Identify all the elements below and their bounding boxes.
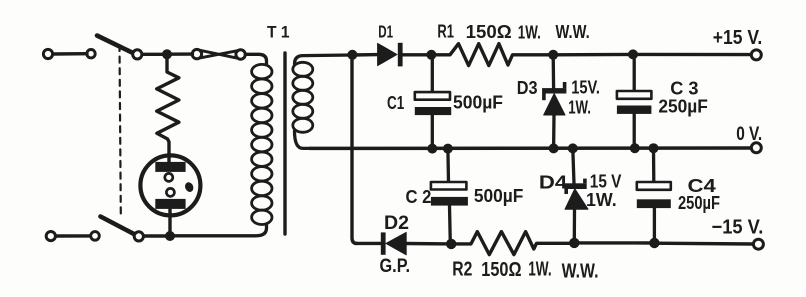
svg-text:500µF: 500µF: [474, 186, 524, 206]
wire: C4 branch lower: [653, 208, 656, 243]
wire: secondary bottom to 0V rail: [295, 131, 311, 148]
wire: top rail to +15V terminal: [633, 53, 751, 57]
fuse F1 bowtie: [201, 50, 237, 58]
wire: D4 branch lower: [573, 209, 577, 243]
svg-text:250µF: 250µF: [678, 193, 720, 213]
svg-text:R1: R1: [437, 22, 454, 42]
node: D4 on 0V rail: [568, 143, 578, 153]
svg-text:1W.: 1W.: [528, 259, 551, 281]
wire: C1 branch lower: [431, 115, 434, 149]
neon lamp upper small circle: [165, 173, 173, 181]
svg-text:W.W.: W.W.: [556, 22, 590, 42]
neon lamp bottom electrode: [155, 199, 185, 209]
capacitor C3 top plate: [617, 91, 652, 99]
fuse F1 left circle: [192, 49, 201, 58]
svg-text:G.P.: G.P.: [380, 256, 411, 277]
terminal 0V: [751, 143, 761, 153]
node: C4 on -15 rail: [649, 238, 659, 248]
zener D3 triangle: [544, 94, 565, 115]
zener D3 cathode bar: [542, 82, 566, 100]
capacitor C4 top plate: [637, 182, 671, 190]
resistor R2 zigzag: [451, 232, 574, 255]
node: C3 on 0V rail: [630, 143, 640, 153]
wire: fuse to transformer primary: [245, 54, 266, 64]
0V rail: [310, 146, 751, 150]
wire: C2 branch upper: [446, 149, 450, 182]
terminal: switch S1b left contact: [91, 232, 100, 241]
node A (junction switch/resistor/fuse): [162, 49, 172, 59]
wire: secondary top to +rail: [295, 55, 353, 64]
terminal: mains pin bottom-left: [46, 232, 55, 241]
switch S1b arm: [101, 217, 136, 235]
svg-text:−15 V.: −15 V.: [712, 216, 764, 238]
node: D1 / R1 / C1 junction: [426, 50, 436, 60]
neon lamp top electrode: [155, 162, 185, 172]
switch S1b right contact: [134, 232, 143, 241]
svg-text:D4: D4: [539, 172, 568, 192]
node: R1 / D3 junction: [548, 50, 558, 60]
node: C1 on 0V rail: [427, 144, 437, 154]
transformer T1 secondary winding: [293, 62, 313, 132]
wire: lamp bottom to bottom node: [168, 209, 171, 236]
node: D2 / C2 / R2 junction: [446, 239, 456, 249]
node: D3 on 0V rail: [549, 143, 559, 153]
wire: node B to primary bottom: [170, 224, 267, 236]
svg-text:1W.: 1W.: [568, 98, 591, 118]
capacitor C1 bottom plate: [415, 107, 451, 115]
svg-text:C1: C1: [387, 93, 404, 113]
diode D1 triangle: [378, 43, 397, 65]
node: D4 on -15 rail: [569, 238, 579, 248]
svg-text:1W.: 1W.: [518, 22, 541, 42]
svg-text:+15 V.: +15 V.: [713, 26, 763, 49]
wire: top rail node A2 to D1: [352, 53, 378, 57]
wire: bottom-left terminal pair link: [56, 234, 90, 238]
wire: C1 branch upper: [431, 55, 434, 92]
svg-text:250µF: 250µF: [658, 97, 708, 117]
wire: S1a to node A: [143, 53, 168, 56]
fuse F1 right circle: [236, 50, 245, 59]
wire: D2 to R2 node: [406, 242, 451, 246]
diode D2 cathode bar: [381, 232, 386, 254]
wire: C3 branch upper: [633, 54, 636, 91]
svg-text:W.W.: W.W.: [562, 261, 599, 283]
svg-text:15 V: 15 V: [590, 172, 622, 192]
resistor R1 zigzag: [431, 44, 553, 66]
svg-text:15V.: 15V.: [571, 78, 600, 98]
capacitor C2 bottom plate: [431, 197, 468, 206]
terminal: switch S1a left contact: [87, 50, 95, 58]
capacitor C1 top plate: [415, 92, 450, 100]
terminal: mains pin top-left: [43, 49, 52, 58]
svg-text:150Ω: 150Ω: [481, 259, 521, 281]
ganged-switch dashed link: [120, 45, 121, 214]
capacitor C2 top plate: [431, 182, 467, 190]
wire: -15 rail D4 to C4: [574, 241, 654, 245]
svg-text:C 2: C 2: [406, 187, 432, 207]
neon lamp lower small circle: [166, 188, 174, 196]
diode D1 cathode bar: [398, 43, 403, 67]
node: C3 junction top: [628, 49, 638, 59]
wire: D3 branch lower: [552, 115, 556, 149]
svg-text:D1: D1: [378, 22, 393, 42]
switch S1a right contact: [133, 50, 142, 59]
switch S1a arm: [97, 36, 134, 54]
wire: top rail R1 node to C3 node: [553, 53, 633, 57]
wire: D3 branch upper: [552, 55, 556, 89]
svg-text:1W.: 1W.: [586, 190, 617, 210]
neon lamp gas dot: [183, 181, 194, 193]
svg-text:0 V.: 0 V.: [736, 123, 762, 145]
transformer T1 primary winding: [252, 64, 272, 224]
wire: top-left terminal pair link: [53, 52, 87, 56]
svg-text:D3: D3: [517, 78, 538, 98]
wire: bottom rail to D2: [355, 242, 381, 245]
wire: C4 branch upper: [652, 148, 656, 182]
terminal -15V: [753, 239, 763, 249]
zener D4 triangle: [565, 189, 588, 209]
diode D2 triangle: [386, 232, 406, 254]
svg-text:500µF: 500µF: [453, 93, 503, 113]
transformer T1 core: [283, 53, 286, 234]
terminal +15V: [751, 50, 761, 60]
wire: D1 to node C1: [403, 53, 432, 56]
svg-text:D2: D2: [384, 213, 409, 234]
wire: C3 branch lower: [633, 114, 636, 149]
wire: D4 branch upper: [573, 148, 574, 183]
wire: node A to fuse: [167, 52, 193, 56]
svg-text:T 1: T 1: [267, 22, 290, 41]
capacitor C3 bottom plate: [617, 106, 652, 114]
wire: C2 branch lower: [448, 206, 452, 244]
neon lamp circle: [140, 155, 200, 215]
zener D4 cathode bar: [564, 179, 586, 194]
node: C2 on 0V rail: [443, 144, 453, 154]
node: rectifier feed junction: [347, 50, 357, 60]
wire: vertical feed to negative rectifier (crosses 0V, no dot): [352, 55, 357, 243]
node B (lamp / primary bottom junction): [165, 231, 175, 241]
node: C4 on 0V rail: [649, 143, 659, 153]
svg-text:R2: R2: [452, 259, 472, 281]
capacitor C4 bottom plate: [637, 199, 671, 208]
ballast resistor (for neon lamp) vertical zigzag: [157, 59, 179, 167]
wire: S1b to lamp bottom node: [144, 234, 170, 237]
svg-text:150Ω: 150Ω: [466, 22, 512, 42]
wire: -15 rail to terminal: [654, 241, 752, 245]
